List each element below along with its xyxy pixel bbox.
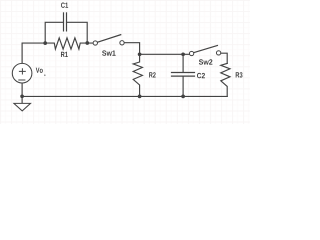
node junction bottom rail / ground — [20, 94, 24, 98]
wire source bottom to ground — [21, 83, 23, 103]
capacitor C2 bottom lead — [182, 76, 184, 96]
label R3 — [236, 72, 243, 77]
resistor R1 — [45, 38, 93, 49]
node junction bottom rail / R2 — [138, 95, 142, 99]
label Vo — [36, 68, 43, 73]
resistor R3 — [221, 63, 230, 96]
wire mid rail — [140, 53, 190, 55]
switch Sw1 — [93, 35, 124, 46]
voltage source Vo — [12, 63, 32, 83]
capacitor C2 top lead — [182, 54, 184, 72]
switch Sw2 — [189, 45, 220, 55]
label C2 — [197, 73, 205, 78]
wire Sw2 right terminal to R3 — [221, 53, 228, 63]
node junction mid rail / C2 top — [181, 52, 185, 56]
label R2 — [149, 72, 156, 77]
node B junction C1/R1 right — [85, 41, 89, 45]
label Sw1 — [102, 50, 116, 55]
wire C1 right riser — [67, 22, 87, 43]
node junction mid rail / R2 top — [138, 52, 142, 56]
wire bottom rail — [22, 95, 227, 97]
wire from source top to node A — [22, 43, 45, 63]
ground — [14, 103, 31, 111]
capacitor C1 — [64, 13, 67, 31]
label C1 — [61, 2, 68, 7]
label Sw2 — [199, 59, 213, 64]
label R1 — [61, 52, 68, 57]
node junction bottom rail / C2 — [181, 95, 185, 99]
wire C1 left riser — [45, 22, 63, 43]
label dot after Vo — [44, 74, 46, 76]
capacitor C2 — [172, 73, 195, 77]
resistor R2 — [133, 54, 142, 96]
node A junction C1/R1 left — [43, 41, 47, 45]
wire Sw1 right terminal to mid rail — [124, 43, 140, 55]
